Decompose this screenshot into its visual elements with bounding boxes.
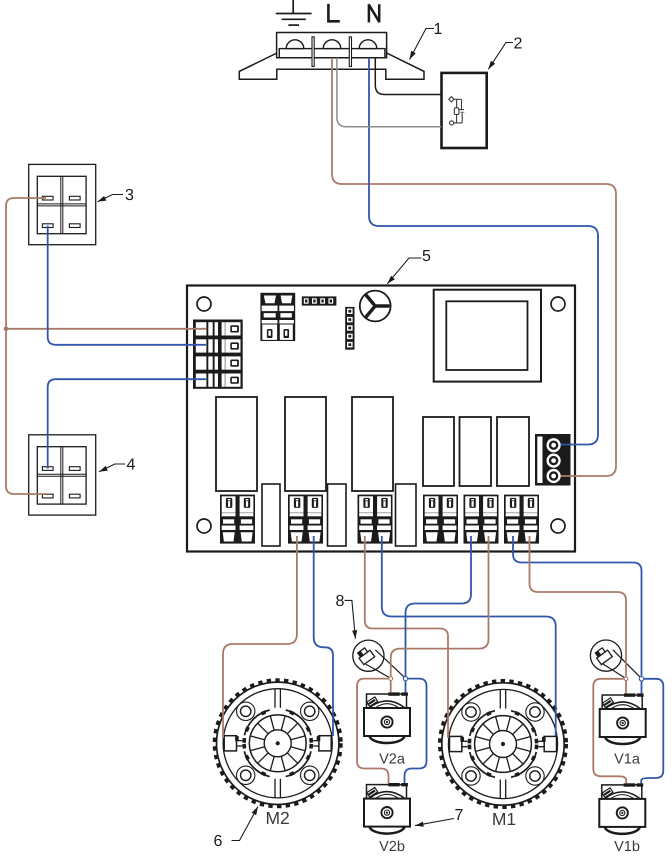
3-pos mains terminal on PCB right <box>535 434 571 486</box>
relay K3 on PCB <box>352 397 393 491</box>
wire N blue: mains to PCB right terminal <box>369 58 598 445</box>
motor M2 <box>214 680 341 807</box>
relay K2 on PCB <box>285 397 326 491</box>
relay K5 on PCB <box>460 417 492 486</box>
terminal divider screw 2 <box>349 37 351 67</box>
wire blue: node B2 to V2a <box>405 681 407 693</box>
output terminal T1 on PCB <box>220 495 255 544</box>
label L <box>328 4 339 21</box>
PCB mounting hole bottom-right <box>551 519 565 533</box>
4-pin header strip on PCB <box>302 296 337 305</box>
pressure switch box 2 <box>442 73 487 148</box>
terminal block 1 bar <box>279 49 385 58</box>
output terminal T2 on PCB <box>288 495 323 544</box>
wire brown: node A2 to V2a <box>390 681 392 693</box>
output terminal T6 on PCB <box>504 495 539 544</box>
terminal block 1 (mains) bracket <box>239 53 424 79</box>
node B2 (blue) <box>403 676 407 680</box>
wire blue: switch 4 to PCB connector row 4 <box>48 379 206 468</box>
valve V1b <box>599 783 645 834</box>
PCB mounting hole top-left <box>197 297 211 311</box>
sensor 8 contact lines (left) <box>366 664 390 678</box>
svg-text:3: 3 <box>125 187 134 204</box>
leader line 5 <box>387 258 421 284</box>
valve V1a <box>600 693 646 744</box>
wire brown branch: junction to PCB connector row 1 <box>6 328 206 330</box>
wire brown: T5 to node A2 <box>391 536 489 676</box>
wire blue: node B2 bypass to V2b <box>405 679 427 784</box>
svg-text:8: 8 <box>336 593 345 610</box>
fuse holder block on PCB <box>260 293 295 341</box>
svg-text:V2b: V2b <box>379 839 405 855</box>
motor M1 <box>440 681 567 808</box>
relay K1 on PCB <box>216 397 257 491</box>
ground symbol <box>276 0 312 25</box>
leader line 6 <box>232 807 259 841</box>
transformer / display module on PCB <box>434 290 541 382</box>
wall switch 4 outer frame <box>29 435 96 515</box>
svg-text:V1b: V1b <box>614 839 640 855</box>
svg-text:7: 7 <box>455 807 464 824</box>
valve V2a <box>364 692 410 743</box>
valve V2b <box>364 783 410 834</box>
svg-text:2: 2 <box>514 36 523 53</box>
leader line 3 <box>98 195 124 202</box>
relay K6 on PCB <box>497 417 529 486</box>
wall switch 3 rocker dividers <box>37 176 86 233</box>
wire blue: T2 to M2 right <box>314 536 333 736</box>
svg-text:M2: M2 <box>265 808 289 828</box>
wire brown: node A1 to V1a <box>625 681 627 694</box>
wall switch 4 inner frame <box>37 447 86 504</box>
wire blue: node B1 to V1a <box>641 681 643 694</box>
wire blue: T6 to node B1 <box>513 536 642 676</box>
wire L brown: mains to PCB right terminal <box>332 58 616 476</box>
junction dot brown <box>4 327 9 332</box>
terminal hump 3 (N) <box>359 40 377 49</box>
terminal hump 2 (L) <box>323 40 341 49</box>
wire black: mains to pressure switch 2 <box>375 58 441 95</box>
leader line 7 <box>415 819 454 826</box>
svg-text:4: 4 <box>127 457 136 474</box>
wall switch 3 slots <box>42 196 53 200</box>
wall switch 3 outer frame <box>29 164 96 244</box>
wire brown: node A1 bypass to V1b <box>593 679 626 784</box>
leader line 8 <box>345 600 356 638</box>
capacitor block C3 on PCB <box>396 484 417 546</box>
wall switch 4 slots <box>42 467 53 471</box>
wire gray: mains to pressure switch 2 <box>337 58 442 127</box>
leader line 2 <box>488 43 513 70</box>
wire blue: node B1 bypass to V1b <box>641 679 663 784</box>
wire brown: node A2 bypass to V2b <box>357 679 389 784</box>
fan symbol on PCB <box>360 291 391 322</box>
wire brown: T2 to M2 left <box>223 536 297 738</box>
control PCB 5 board outline <box>187 286 575 552</box>
thermal sensor 8 (left) <box>353 640 384 671</box>
right sensor contact lines <box>603 664 625 678</box>
output terminal T5 on PCB <box>464 495 499 544</box>
wire brown: T6 to node A1 <box>530 536 627 676</box>
label N <box>369 4 380 22</box>
node B1 (blue) <box>639 677 643 681</box>
wall switch 3 inner frame <box>37 176 86 233</box>
svg-text:1: 1 <box>434 21 443 38</box>
leader line 1 <box>410 29 435 60</box>
leader line 4 <box>99 464 125 472</box>
wire blue: T5 to node B2 <box>406 536 472 676</box>
node A2 (brown) <box>389 677 393 681</box>
capacitor block C1 on PCB <box>262 484 280 546</box>
svg-text:V1a: V1a <box>614 752 641 768</box>
terminal hump 1 <box>286 40 304 49</box>
5-pin vertical header strip on PCB <box>345 307 354 350</box>
svg-text:M1: M1 <box>492 809 516 829</box>
PCB mounting hole top-right <box>551 297 565 311</box>
wire blue: T3 to M1 right <box>382 536 556 736</box>
relay K4 on PCB <box>423 417 454 486</box>
svg-text:6: 6 <box>214 833 223 850</box>
wire blue: switch 3 to PCB connector row 2 <box>48 226 206 345</box>
wire brown: switch 3 / switch 4 loop <box>6 198 46 494</box>
thermal sensor (right) <box>590 640 621 671</box>
capacitor block C2 on PCB <box>328 484 347 546</box>
output terminal T4 on PCB <box>423 495 458 544</box>
4-pos input connector on PCB left <box>193 320 243 389</box>
output terminal T3 on PCB <box>358 495 393 544</box>
node A1 (brown) <box>624 677 628 681</box>
terminal divider screw 1 <box>312 37 314 67</box>
PCB mounting hole bottom-left <box>197 519 211 533</box>
pressure switch symbol inside box 2 <box>449 97 465 125</box>
svg-text:5: 5 <box>422 248 431 265</box>
terminal block 1 top housing <box>277 33 387 58</box>
wall switch 4 rocker dividers <box>37 447 86 504</box>
svg-text:V2a: V2a <box>379 752 406 768</box>
wire brown: T3 to M1 left <box>365 536 448 738</box>
